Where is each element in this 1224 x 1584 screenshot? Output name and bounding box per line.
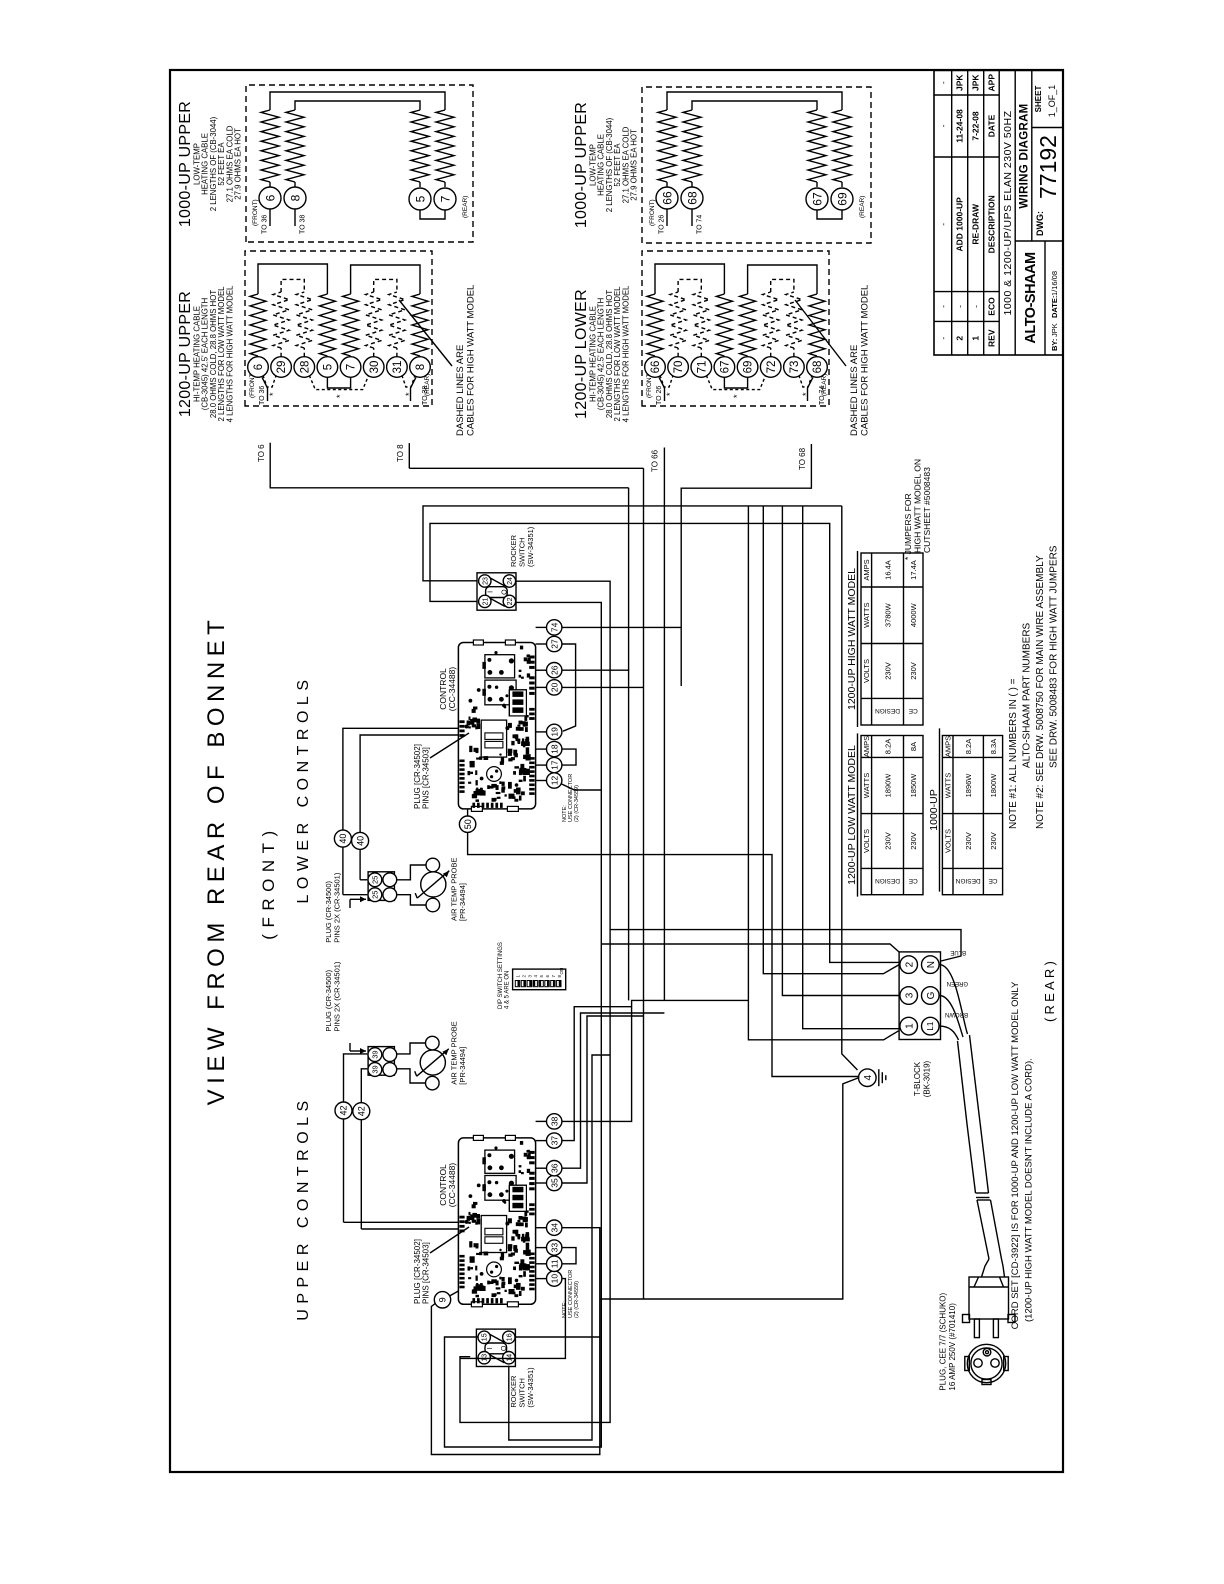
svg-text:38: 38 (549, 1116, 559, 1126)
svg-text:7: 7 (438, 195, 452, 202)
svg-text:VIEW FROM REAR OF BONNET: VIEW FROM REAR OF BONNET (203, 615, 230, 1106)
svg-text:NOTE #1: ALL NUMBERS IN ( ) =: NOTE #1: ALL NUMBERS IN ( ) = (1008, 678, 1019, 829)
svg-text:1: 1 (904, 1023, 915, 1029)
svg-text:42: 42 (357, 1106, 367, 1116)
svg-text:5: 5 (323, 364, 335, 370)
svg-text:68: 68 (812, 361, 824, 374)
svg-text:4000W: 4000W (909, 602, 918, 627)
svg-text:TO 74: TO 74 (697, 215, 704, 234)
svg-text:-: - (955, 305, 965, 308)
svg-text:2: 2 (955, 336, 965, 341)
svg-text:(REAR): (REAR) (859, 196, 866, 218)
svg-text:UPPER CONTROLS: UPPER CONTROLS (295, 1095, 312, 1320)
svg-text:73: 73 (789, 361, 801, 374)
svg-text:ALTO-SHAAM: ALTO-SHAAM (1023, 252, 1039, 344)
svg-text:12: 12 (549, 776, 559, 786)
svg-text:29: 29 (276, 361, 288, 374)
svg-text:SEE DRW. 5008483 FOR HIGH WATT: SEE DRW. 5008483 FOR HIGH WATT JUMPERS (1049, 545, 1060, 768)
svg-text:*: * (665, 392, 675, 396)
svg-text:(CC-34488): (CC-34488) (447, 1163, 457, 1208)
svg-text:22: 22 (507, 597, 514, 605)
svg-text:-: - (938, 337, 948, 340)
svg-text:(FRONT): (FRONT) (649, 199, 656, 226)
svg-text:21: 21 (482, 597, 489, 605)
svg-text:68: 68 (685, 191, 699, 205)
svg-text:PLUG, CEE 7/7 (SCHUKO): PLUG, CEE 7/7 (SCHUKO) (939, 1292, 948, 1390)
svg-text:-: - (938, 305, 948, 308)
svg-text:7: 7 (346, 364, 358, 370)
svg-text:5: 5 (413, 195, 427, 202)
svg-text:1000-UP UPPER: 1000-UP UPPER (177, 101, 194, 227)
svg-text:39: 39 (371, 1065, 380, 1073)
svg-text:BY:: BY: (1050, 339, 1059, 351)
svg-text:4 LENGTHS FOR HIGH WATT MODEL: 4 LENGTHS FOR HIGH WATT MODEL (225, 285, 234, 422)
svg-text:DATE: DATE (987, 114, 997, 137)
svg-text:O: O (501, 1345, 508, 1351)
svg-text:GREEN: GREEN (947, 980, 968, 986)
svg-text:14: 14 (506, 1354, 513, 1362)
svg-text:[PR-34494]: [PR-34494] (458, 1047, 467, 1085)
svg-text:-: - (938, 124, 948, 127)
svg-text:-: - (938, 223, 948, 226)
svg-text:TO 66: TO 66 (651, 449, 660, 472)
svg-text:3: 3 (904, 992, 915, 998)
svg-text:DIP SWITCH SETTINGS: DIP SWITCH SETTINGS (498, 942, 504, 1009)
svg-text:DWG:: DWG: (1035, 211, 1045, 236)
svg-text:40: 40 (355, 836, 365, 846)
svg-text:* JUMPERS FOR: * JUMPERS FOR (903, 493, 913, 560)
svg-text:RE-DRAW: RE-DRAW (971, 203, 981, 245)
svg-text:50: 50 (463, 819, 473, 829)
svg-text:1/16/08: 1/16/08 (1050, 271, 1059, 296)
svg-text:JPK: JPK (971, 74, 981, 91)
svg-text:(CC-34488): (CC-34488) (447, 667, 457, 712)
svg-text:1000-UP: 1000-UP (928, 789, 940, 830)
svg-text:67: 67 (810, 192, 824, 206)
svg-text:TO 8: TO 8 (396, 444, 405, 462)
svg-text:JPK: JPK (955, 74, 965, 91)
svg-text:REV: REV (987, 329, 997, 347)
svg-text:DESIGN: DESIGN (875, 877, 900, 884)
svg-text:16: 16 (506, 1333, 513, 1341)
svg-text:20: 20 (549, 682, 559, 692)
svg-text:(SW-34351): (SW-34351) (526, 1367, 535, 1408)
svg-text:HIGH WATT MODEL ON: HIGH WATT MODEL ON (913, 459, 923, 553)
svg-text:8A: 8A (909, 742, 918, 751)
svg-text:*: * (268, 392, 278, 396)
svg-text:N: N (926, 961, 937, 968)
svg-text:WATTS: WATTS (944, 773, 953, 798)
svg-text:-: - (971, 305, 981, 308)
svg-text:(REAR): (REAR) (424, 374, 431, 396)
svg-text:APP: APP (987, 74, 997, 92)
svg-text:LOWER CONTROLS: LOWER CONTROLS (295, 674, 312, 903)
svg-text:37: 37 (549, 1136, 559, 1146)
svg-text:31: 31 (392, 361, 404, 374)
svg-text:17.4A: 17.4A (909, 560, 918, 580)
svg-text:AMPS: AMPS (862, 736, 871, 757)
svg-text:28: 28 (299, 361, 311, 374)
svg-text:4: 4 (863, 1074, 874, 1080)
svg-text:35: 35 (549, 1178, 559, 1188)
svg-text:TO 36: TO 36 (262, 215, 269, 234)
svg-text:230V: 230V (909, 832, 918, 850)
svg-text:2: 2 (904, 961, 915, 967)
svg-text:1800W: 1800W (989, 773, 998, 798)
svg-text:CABLES FOR HIGH WATT MODEL: CABLES FOR HIGH WATT MODEL (466, 285, 477, 436)
svg-text:CE: CE (988, 877, 998, 884)
svg-text:(FRONT): (FRONT) (259, 824, 278, 939)
svg-text:CORD SET [CD-3922] IS FOR 1000: CORD SET [CD-3922] IS FOR 1000-UP AND 12… (1010, 981, 1021, 1329)
svg-text:8.2A: 8.2A (883, 739, 892, 754)
svg-text:77192: 77192 (1035, 135, 1061, 199)
svg-text:230V: 230V (989, 832, 998, 850)
svg-text:TO 38: TO 38 (300, 215, 307, 234)
svg-text:17: 17 (549, 760, 559, 770)
svg-text:PINS [CR-34503]: PINS [CR-34503] (422, 1242, 431, 1304)
svg-text:I: I (488, 591, 495, 593)
svg-text:25: 25 (371, 876, 380, 884)
svg-text:VOLTS: VOLTS (862, 829, 871, 853)
svg-text:(REAR): (REAR) (1042, 958, 1057, 1022)
svg-text:ALTO-SHAAM PART NUMBERS: ALTO-SHAAM PART NUMBERS (1022, 622, 1033, 768)
svg-text:AMPS: AMPS (862, 559, 871, 580)
svg-text:-: - (938, 81, 948, 84)
svg-text:TO 36: TO 36 (259, 386, 266, 405)
svg-text:G: G (926, 991, 937, 999)
svg-text:TO 26: TO 26 (659, 215, 666, 234)
svg-text:16 AMP 250V (#701410): 16 AMP 250V (#701410) (948, 1303, 957, 1391)
svg-text:(FRONT): (FRONT) (252, 199, 259, 226)
svg-text:1: 1 (971, 336, 981, 341)
svg-text:9: 9 (438, 1297, 448, 1302)
svg-text:CUTSHEET #5008483: CUTSHEET #5008483 (922, 467, 932, 553)
svg-text:PINS 2X (CR-34501): PINS 2X (CR-34501) (333, 872, 342, 943)
svg-text:34: 34 (549, 1223, 559, 1233)
svg-text:L1: L1 (926, 1021, 935, 1030)
svg-text:WIRING DIAGRAM: WIRING DIAGRAM (1019, 103, 1031, 208)
svg-text:66: 66 (650, 361, 662, 374)
svg-text:1000 & 1200-UP/UPS ELAN 230V 5: 1000 & 1200-UP/UPS ELAN 230V 50HZ (1002, 110, 1014, 315)
svg-text:SHEET: SHEET (1034, 86, 1043, 113)
svg-text:1200-UP HIGH WATT MODEL: 1200-UP HIGH WATT MODEL (846, 568, 858, 710)
svg-text:ADD 1000-UP: ADD 1000-UP (955, 197, 965, 252)
svg-text:1850W: 1850W (909, 773, 918, 798)
svg-text:TO 26: TO 26 (656, 386, 663, 405)
svg-text:26: 26 (549, 665, 559, 675)
svg-text:69: 69 (743, 361, 755, 374)
svg-text:230V: 230V (964, 832, 973, 850)
svg-text:4 & 5 ARE ON: 4 & 5 ARE ON (505, 971, 511, 1009)
svg-text:*: * (801, 392, 811, 396)
svg-text:230V: 230V (883, 832, 892, 850)
svg-text:8.2A: 8.2A (964, 739, 973, 754)
svg-text:PINS 2X (CR-34501): PINS 2X (CR-34501) (333, 961, 342, 1032)
svg-text:15: 15 (482, 1333, 489, 1341)
svg-text:1200-UP LOW WATT MODEL: 1200-UP LOW WATT MODEL (846, 745, 858, 885)
svg-text:230V: 230V (909, 662, 918, 680)
svg-text:19: 19 (549, 727, 559, 737)
svg-text:BLUE: BLUE (950, 949, 966, 955)
svg-text:23: 23 (482, 577, 489, 585)
svg-text:WATTS: WATTS (862, 602, 871, 627)
svg-text:CE: CE (908, 877, 918, 884)
svg-text:ON: ON (559, 968, 564, 975)
svg-text:6: 6 (253, 364, 265, 370)
svg-text:TO 68: TO 68 (798, 447, 807, 470)
svg-text:DESIGN: DESIGN (875, 707, 900, 714)
svg-text:(BK-3019): (BK-3019) (923, 1060, 932, 1097)
svg-text:*: * (404, 392, 414, 396)
svg-text:3780W: 3780W (883, 602, 892, 627)
svg-text:VOLTS: VOLTS (862, 659, 871, 683)
svg-text:27.9 OHMS EA HOT: 27.9 OHMS EA HOT (234, 128, 243, 200)
svg-text:70: 70 (673, 361, 685, 374)
svg-text:27.9 OHMS EA HOT: 27.9 OHMS EA HOT (630, 129, 639, 201)
svg-text:33: 33 (549, 1243, 559, 1253)
svg-text:PINS [CR-34503]: PINS [CR-34503] (422, 747, 431, 809)
svg-text:TO 6: TO 6 (257, 444, 266, 462)
svg-text:11-24-08: 11-24-08 (955, 109, 965, 143)
svg-text:69: 69 (835, 192, 849, 206)
svg-text:30: 30 (369, 361, 381, 374)
svg-text:72: 72 (766, 361, 778, 374)
svg-text:*: * (335, 394, 345, 398)
svg-text:T-BLOCK: T-BLOCK (913, 1061, 922, 1096)
svg-text:230V: 230V (883, 662, 892, 680)
svg-text:8: 8 (415, 364, 427, 370)
svg-text:1000-UP UPPER: 1000-UP UPPER (573, 102, 590, 228)
svg-text:13: 13 (482, 1354, 489, 1362)
svg-text:*: * (732, 394, 742, 398)
svg-text:7-22-08: 7-22-08 (971, 111, 981, 141)
svg-text:4 LENGTHS FOR HIGH WATT MODEL: 4 LENGTHS FOR HIGH WATT MODEL (621, 285, 630, 422)
svg-text:[PR-34494]: [PR-34494] (458, 883, 467, 921)
svg-text:1_OF_1: 1_OF_1 (1047, 85, 1057, 118)
svg-text:(1200-UP HIGH WATT MODEL DOESN: (1200-UP HIGH WATT MODEL DOESN'T INCLUDE… (1024, 1058, 1035, 1322)
svg-text:O: O (501, 589, 508, 595)
svg-text:39: 39 (371, 1050, 380, 1058)
svg-text:(2) (CR-34559): (2) (CR-34559) (574, 1281, 580, 1318)
svg-text:VOLTS: VOLTS (944, 829, 953, 853)
svg-text:18: 18 (549, 744, 559, 754)
svg-text:27: 27 (549, 639, 559, 649)
svg-text:WATTS: WATTS (862, 773, 871, 798)
svg-text:71: 71 (696, 361, 708, 374)
svg-text:DATE:: DATE: (1050, 296, 1059, 318)
svg-text:1200-UP LOWER: 1200-UP LOWER (573, 289, 590, 419)
svg-text:CABLES FOR HIGH WATT MODEL: CABLES FOR HIGH WATT MODEL (860, 285, 871, 436)
svg-text:67: 67 (720, 361, 732, 374)
svg-text:42: 42 (339, 1105, 349, 1115)
svg-text:16.4A: 16.4A (883, 560, 892, 580)
svg-text:DASHED LINES ARE: DASHED LINES ARE (455, 345, 466, 436)
svg-text:36: 36 (549, 1163, 559, 1173)
svg-text:(SW-34351): (SW-34351) (526, 526, 535, 567)
svg-text:6: 6 (263, 194, 277, 201)
svg-text:JPK: JPK (1050, 323, 1059, 337)
svg-text:CE: CE (908, 707, 918, 714)
svg-text:NOTE #2: SEE DRW. 5008750 FOR: NOTE #2: SEE DRW. 5008750 FOR MAIN WIRE … (1035, 555, 1046, 829)
svg-text:40: 40 (338, 834, 348, 844)
svg-text:10: 10 (549, 1274, 559, 1284)
svg-text:11: 11 (549, 1259, 559, 1268)
svg-text:8: 8 (288, 194, 302, 201)
svg-text:66: 66 (660, 191, 674, 205)
svg-text:25: 25 (371, 891, 380, 899)
svg-text:(REAR): (REAR) (462, 196, 469, 218)
svg-text:1200-UP UPPER: 1200-UP UPPER (177, 291, 194, 417)
svg-text:74: 74 (549, 622, 559, 632)
svg-text:1890W: 1890W (883, 773, 892, 798)
svg-text:1896W: 1896W (964, 773, 973, 798)
svg-text:24: 24 (507, 577, 514, 585)
svg-text:DESIGN: DESIGN (955, 877, 980, 884)
svg-text:DASHED LINES ARE: DASHED LINES ARE (849, 345, 860, 436)
svg-text:8.3A: 8.3A (989, 739, 998, 754)
svg-text:(REAR): (REAR) (821, 374, 828, 396)
svg-text:ECO: ECO (987, 297, 997, 316)
svg-text:AMPS: AMPS (944, 736, 953, 757)
svg-text:I: I (487, 1347, 494, 1349)
svg-text:DESCRIPTION: DESCRIPTION (987, 195, 997, 253)
